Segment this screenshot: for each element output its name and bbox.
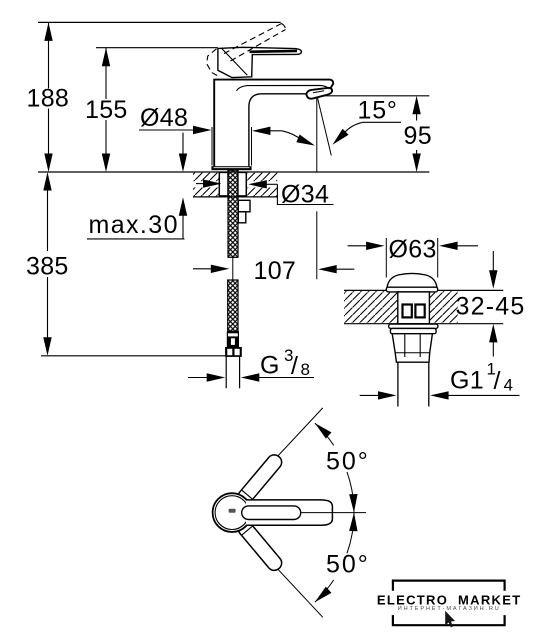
top view lever upper <box>235 452 284 507</box>
drain locknut <box>392 334 432 363</box>
15 degree spray line <box>317 97 331 156</box>
threaded stud <box>228 170 238 257</box>
svg-text:15°: 15° <box>358 97 398 125</box>
dimension 385 <box>47 188 49 340</box>
hose nut <box>225 347 242 357</box>
svg-text:32-45: 32-45 <box>456 293 526 321</box>
hose neck line <box>232 257 234 280</box>
top view spout <box>246 500 332 525</box>
drain cap dome <box>387 273 437 287</box>
drain cap plate <box>386 287 437 292</box>
svg-text:4: 4 <box>504 376 513 395</box>
top view spout inner <box>242 506 301 520</box>
dimension 188 <box>48 22 50 156</box>
drain body in counter <box>398 292 430 324</box>
faucet body outline <box>214 80 333 167</box>
mounting nut left <box>219 172 228 196</box>
top view center logo mark <box>229 509 236 513</box>
logo electro market frame bottom <box>393 615 505 625</box>
base flange <box>211 166 251 170</box>
drain countertop lines <box>344 289 503 291</box>
svg-text:107: 107 <box>254 257 297 285</box>
logo electro market frame top <box>393 581 505 591</box>
svg-text:max.30: max.30 <box>89 211 179 239</box>
handle lever solid <box>218 47 302 77</box>
dimension max.30 <box>182 133 184 157</box>
dimension G 3/8 <box>188 377 209 379</box>
dimension 95 <box>416 112 418 157</box>
top view angled line upper <box>240 408 323 496</box>
svg-text:188: 188 <box>27 85 70 113</box>
svg-text:50°: 50° <box>326 448 370 476</box>
svg-text:Ø34: Ø34 <box>281 181 329 209</box>
witness line left <box>211 127 213 166</box>
curved arc to plumb line <box>282 131 303 141</box>
top view lever lower <box>235 519 284 574</box>
dimension 32-45 <box>492 251 494 273</box>
counter hatch main view <box>193 173 219 182</box>
svg-text:8: 8 <box>301 360 310 379</box>
svg-text:/: / <box>291 352 298 380</box>
spout height reference line <box>324 95 429 97</box>
svg-text:Ø63: Ø63 <box>389 236 437 264</box>
dimension G1 1/4 <box>360 394 381 396</box>
angle arc lower <box>347 513 354 554</box>
dimension 155 <box>105 48 107 156</box>
svg-text:G1: G1 <box>450 367 484 395</box>
top view angled line lower <box>240 529 323 617</box>
drain counter hatch <box>344 291 398 323</box>
hose collar <box>227 331 239 347</box>
dimension diameter 34 <box>196 183 206 185</box>
dimension 107 <box>193 268 213 270</box>
mounting nut right <box>238 172 246 196</box>
handle dashed raised position <box>207 24 286 77</box>
drain tail pipe <box>397 362 399 406</box>
svg-text:385: 385 <box>26 253 69 281</box>
logo cursor <box>445 611 455 628</box>
plumb line from spout <box>316 97 318 172</box>
drain flange washers <box>389 324 438 328</box>
bottom reference line hose end <box>41 355 225 357</box>
drain overflow windows <box>403 305 412 318</box>
fixing hardware below counter <box>238 200 250 212</box>
svg-text:95: 95 <box>404 122 432 150</box>
G3/8 pipe <box>225 357 227 388</box>
svg-text:50°: 50° <box>326 550 370 578</box>
counter bottom line <box>193 196 277 198</box>
svg-text:ИНТЕРНЕТ-МАГАЗИН.RU: ИНТЕРНЕТ-МАГАЗИН.RU <box>398 606 501 612</box>
svg-text:/: / <box>494 367 501 395</box>
top reference line (handle raised) <box>38 21 281 23</box>
witness line right <box>251 127 253 166</box>
svg-text:155: 155 <box>85 96 128 124</box>
svg-text:G: G <box>260 351 280 379</box>
reference line 155 level <box>96 47 218 49</box>
svg-text:Ø48: Ø48 <box>140 104 188 132</box>
countertop line main view <box>38 171 429 173</box>
top view centerline <box>301 512 366 514</box>
braided hose <box>228 280 238 331</box>
top view body circle <box>213 493 252 532</box>
angle arc upper <box>315 423 334 445</box>
aerator <box>306 88 332 99</box>
